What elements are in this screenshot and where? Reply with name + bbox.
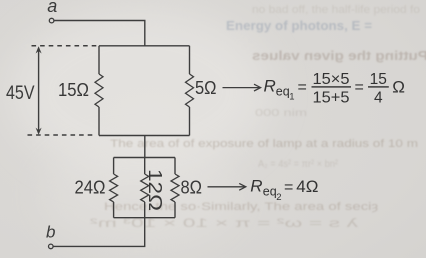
svg-text:24Ω: 24Ω [75, 178, 106, 198]
svg-text:The area of of exposure of lam: The area of of exposure of lamp at a rad… [110, 138, 418, 150]
svg-text:Putting the given values: Putting the given values [252, 49, 426, 63]
terminal b [49, 244, 54, 249]
svg-text:45V: 45V [6, 83, 35, 104]
svg-text:15: 15 [370, 71, 387, 88]
svg-text:15+5: 15+5 [313, 90, 350, 107]
svg-text:A₂ = 4s² = πr² × bn²: A₂ = 4s² = πr² × bn² [258, 159, 339, 170]
wire: terminal a to top node [54, 21, 145, 46]
svg-text:R: R [250, 177, 262, 196]
svg-text:=: = [284, 179, 293, 196]
svg-text:a: a [47, 0, 57, 16]
svg-text:eq: eq [276, 85, 290, 99]
svg-text:12Ω: 12Ω [145, 169, 165, 211]
box 1 bottom wire [99, 135, 190, 137]
wire: box2 to terminal b [53, 218, 145, 247]
resistor R=5 ohm (right branch box 1) [186, 46, 194, 136]
svg-text:8Ω: 8Ω [181, 177, 203, 197]
resistor R=12 ohm (middle branch box 2) [141, 158, 149, 218]
resistor R=8 ohm (right branch box 2) [171, 158, 179, 218]
dashed reference line top [32, 45, 98, 47]
svg-text:R: R [264, 77, 276, 96]
svg-text:b: b [46, 223, 55, 242]
svg-text:Ω: Ω [392, 77, 405, 96]
svg-text:eq: eq [263, 185, 277, 199]
svg-text:15×5: 15×5 [313, 71, 350, 88]
box 1 top wire [99, 45, 190, 47]
svg-text:=: = [298, 79, 307, 96]
svg-text:000 nim: 000 nim [255, 108, 307, 119]
svg-text:5Ω: 5Ω [195, 78, 217, 98]
svg-text:=: = [355, 79, 364, 96]
dashed reference line bottom [28, 134, 96, 136]
svg-text:2: 2 [276, 192, 281, 203]
resistor R=24 ohm (left branch box 2) [110, 158, 118, 218]
45V dimension arrow [36, 46, 42, 135]
svg-text:15Ω: 15Ω [58, 80, 89, 100]
box 2 bottom wire [114, 217, 175, 219]
arrow to Req1 [223, 84, 261, 91]
faint bleed-through text lines (decorative) [90, 4, 426, 230]
resistor R=15 ohm (left branch box 1) [95, 46, 103, 136]
wire: box1 to box2 [144, 136, 146, 158]
terminal a [49, 18, 54, 23]
arrow to Req2 [208, 183, 246, 190]
svg-text:1: 1 [289, 92, 294, 103]
svg-text:Energy of photons, E =: Energy of photons, E = [226, 19, 372, 33]
svg-text:no bad off, the half-life peri: no bad off, the half-life period fo [252, 4, 420, 16]
svg-text:4Ω: 4Ω [296, 177, 318, 196]
svg-text:4: 4 [374, 90, 383, 107]
box 2 top wire [114, 157, 175, 159]
